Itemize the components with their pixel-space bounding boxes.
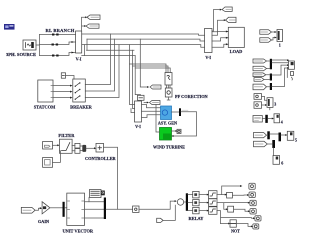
V-I2 meas wires <box>212 10 221 31</box>
out block 4 <box>250 209 256 214</box>
mid block 1 <box>227 192 233 198</box>
wire B1 up to out1 <box>217 186 241 195</box>
turbine left input <box>156 105 160 133</box>
goto tag wind1 <box>147 86 149 88</box>
gain from tag <box>21 207 35 213</box>
relay rows feed <box>188 195 193 211</box>
controller block <box>96 143 104 152</box>
R0 from tag 2 <box>253 66 267 71</box>
R1 scope <box>267 98 273 108</box>
turbine display block <box>172 130 177 132</box>
svg-text:RELAY: RELAY <box>189 216 205 221</box>
from tag scope1 b <box>260 38 272 42</box>
LOAD block <box>228 27 244 47</box>
svg-text:WIND TURBINE: WIND TURBINE <box>153 145 185 150</box>
wire source output branch <box>36 35 40 56</box>
R0 tag-bar wires <box>264 61 270 87</box>
svg-text:5: 5 <box>295 138 297 143</box>
svg-text:4: 4 <box>281 120 283 125</box>
svg-text:GAIN: GAIN <box>38 219 49 224</box>
svg-text:FILTER: FILTER <box>58 133 75 138</box>
breaker riser A <box>85 34 110 85</box>
breaker riser B <box>85 39 114 91</box>
goto tag Iabc <box>86 24 99 28</box>
relay B2 <box>199 202 207 204</box>
wire timer to breaker <box>66 76 75 80</box>
goto tag top I <box>226 17 237 22</box>
pf element connectors <box>167 85 171 88</box>
wire B2 to out3 <box>217 203 249 210</box>
mux2 output wire <box>106 208 133 210</box>
arrowheads into LOAD <box>226 31 228 46</box>
breaker timer block <box>61 73 65 78</box>
NOT blocks <box>221 223 230 225</box>
svg-text:V-I: V-I <box>76 57 82 62</box>
R3 bar 1 <box>267 131 270 139</box>
filter source block 1 <box>43 142 53 150</box>
product to circle <box>139 201 176 209</box>
relay from tag <box>157 218 163 222</box>
V-I measurement 2 <box>205 29 213 53</box>
wires to scope 1 <box>272 32 275 40</box>
svg-text:PF CORECTION: PF CORECTION <box>175 94 209 99</box>
arrowheads into V-I 1 <box>72 41 74 54</box>
R0 from tag 1 <box>253 59 267 63</box>
relay B3 <box>199 210 207 212</box>
bus row3 <box>82 45 205 48</box>
powergui block <box>4 24 15 30</box>
scope 1 <box>277 30 283 42</box>
svg-text:STATCOM: STATCOM <box>34 105 56 110</box>
RL branch symbol row3 <box>52 55 59 57</box>
wind turbine block <box>160 128 172 141</box>
ASY GEN block <box>161 106 172 120</box>
goto tag wind2 <box>144 101 148 103</box>
relay A2 <box>193 200 199 206</box>
breaker block <box>73 79 86 102</box>
pf correction taps <box>130 64 167 73</box>
bus row1 <box>82 34 205 35</box>
filter block <box>60 139 73 153</box>
svg-text:LOAD: LOAD <box>230 49 243 54</box>
wire row2 to V-I 1 <box>40 42 76 45</box>
svg-text:1: 1 <box>279 43 281 48</box>
wire row3 to V-I 1 <box>40 53 76 56</box>
svg-text:NOT: NOT <box>231 228 240 233</box>
R4 from tag <box>254 141 268 147</box>
bus row5 <box>82 55 136 57</box>
out block 3 <box>250 200 256 206</box>
unit vector block <box>67 193 85 225</box>
unit vector out wires <box>85 202 104 218</box>
hatch block feed <box>88 198 90 202</box>
unit vector mux bar <box>63 202 65 217</box>
R2 scope <box>274 114 280 123</box>
goto tag Vabc <box>87 15 100 20</box>
bus row4 <box>87 49 135 51</box>
from tag scope1 a <box>260 30 272 34</box>
V-I measurement 3 <box>135 101 142 122</box>
R1 block A <box>254 94 262 100</box>
R0 from tag 4 <box>254 78 264 82</box>
out block 6 <box>253 224 259 229</box>
svg-text:3: 3 <box>274 102 276 107</box>
svg-text:RL BRANCH: RL BRANCH <box>46 28 75 33</box>
R0 from tag 3 <box>253 73 266 77</box>
svg-text:ASY. GEN: ASY. GEN <box>158 121 177 126</box>
goto tag top V <box>222 7 232 11</box>
R4 scope <box>273 156 280 165</box>
RL branch symbol row1 <box>52 34 59 36</box>
svg-text:V-I: V-I <box>135 124 141 129</box>
filter source block 2 <box>43 158 53 168</box>
R0 wires to scope <box>272 59 288 61</box>
R3 bar 2 <box>279 133 282 142</box>
R4 wire down to scope <box>273 148 275 156</box>
mid block 2 <box>228 206 234 212</box>
out block 1 <box>249 183 255 189</box>
svg-text:V-I: V-I <box>205 55 211 60</box>
relay B1 <box>199 194 207 196</box>
wire B3 routing <box>217 211 254 224</box>
svg-text:UNIT VECTOR: UNIT VECTOR <box>62 228 93 233</box>
R2 mux bar <box>265 115 268 123</box>
product block <box>133 206 139 212</box>
bus row2 <box>87 39 205 41</box>
second mux bar <box>104 198 106 220</box>
svg-text:3PH. SOURCE: 3PH. SOURCE <box>6 52 36 57</box>
wind cluster drop A <box>130 45 135 105</box>
wire row1 to V-I 1 <box>40 34 76 36</box>
logic circle <box>177 199 183 205</box>
mux dark <box>82 145 86 152</box>
hatch block <box>90 190 102 198</box>
pf correction element 1 <box>165 73 172 86</box>
bus jog verticals <box>85 39 88 56</box>
RL branch symbol row2 <box>52 44 59 46</box>
gain triangle <box>42 202 50 214</box>
wind cluster drop C <box>135 56 140 96</box>
wires V-I2 to LOAD <box>212 32 228 36</box>
relay A1 <box>193 191 199 198</box>
wire gen loop to turbine <box>172 112 197 136</box>
R3 scope <box>287 131 294 140</box>
goto drop 4 <box>140 39 148 87</box>
breaker riser C <box>85 45 119 98</box>
out block 2 <box>249 192 255 198</box>
R1 wires <box>262 96 268 105</box>
R2 display block <box>253 116 262 123</box>
V-I measurement 1 <box>76 31 82 53</box>
R4 mux bar <box>272 140 275 148</box>
wires STATCOM to breaker <box>53 86 70 98</box>
R1 block B <box>254 102 262 109</box>
svg-text:6: 6 <box>281 161 283 166</box>
gain to mux <box>50 207 63 209</box>
STATCOM block <box>38 80 53 102</box>
relay A3 <box>193 207 199 213</box>
pf correction element 2 <box>165 88 172 97</box>
wires V-I3 to ASY GEN <box>142 105 161 108</box>
R0 scope <box>288 61 294 69</box>
relay demux bar <box>186 193 188 211</box>
measurement bus bar <box>172 111 180 113</box>
svg-text:BREAKER: BREAKER <box>70 105 93 110</box>
wind const block <box>138 95 145 100</box>
wire V-I1 meas to goto tags <box>82 17 87 31</box>
R0 from tag 5 <box>253 84 267 90</box>
controller wire down <box>104 147 118 209</box>
3-phase source block <box>23 40 36 50</box>
sum blocks <box>75 143 80 148</box>
wind cluster third input <box>131 109 135 113</box>
svg-text:CONTROLLER: CONTROLLER <box>85 156 116 161</box>
R0 mux bars <box>270 59 272 70</box>
wire mux to controller <box>86 147 95 149</box>
R3 from tag <box>254 133 267 138</box>
out block 5 <box>255 216 261 221</box>
wind cluster drop B <box>133 50 135 108</box>
